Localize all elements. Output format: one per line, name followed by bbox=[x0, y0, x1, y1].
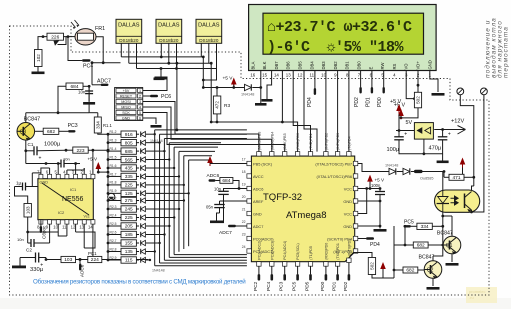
bottom margin strip bbox=[0, 298, 511, 309]
MCU right pin VCC bbox=[353, 211, 358, 215]
svg-text:R2.7: R2.7 bbox=[110, 239, 117, 243]
resistor R2.8 135 bbox=[107, 250, 110, 253]
resistor 334 out bbox=[417, 223, 432, 229]
MCU right pin (INT1)PD3 bbox=[353, 249, 358, 253]
port PC3 stub bbox=[284, 266, 286, 274]
wire LCD pin15 bbox=[267, 71, 272, 100]
svg-text:Q1: Q1 bbox=[446, 243, 453, 249]
wire vcc2 right bbox=[358, 189, 367, 214]
wire q2 collector bbox=[432, 256, 434, 261]
diode D2.3 bbox=[136, 208, 139, 210]
svg-text:R1.1: R1.1 bbox=[103, 123, 113, 128]
resistor R1.4 685 bbox=[107, 150, 110, 153]
wire C2 right bus bbox=[45, 258, 47, 260]
svg-text:685: 685 bbox=[125, 149, 133, 155]
resistor R2.2 275 bbox=[107, 199, 110, 202]
svg-text:1µ: 1µ bbox=[16, 181, 22, 186]
port Сброс bbox=[40, 226, 42, 233]
wire gnd2 right bbox=[358, 225, 380, 227]
port PD2 (lcd) bbox=[360, 71, 362, 88]
port PC5 out bbox=[404, 225, 412, 227]
svg-text:R1.4: R1.4 bbox=[110, 147, 117, 151]
svg-text:+: + bbox=[40, 263, 43, 269]
terminal screw 2 bbox=[481, 88, 488, 95]
port ADC6 bar bbox=[209, 179, 216, 181]
wire VCC pin right bbox=[358, 188, 380, 190]
ground chipleft bbox=[210, 221, 224, 224]
port PD4 (lcd) bbox=[314, 88, 316, 95]
wire opto collector bbox=[473, 177, 475, 186]
svg-text:17: 17 bbox=[242, 158, 246, 162]
svg-text:PC1: PC1 bbox=[88, 251, 97, 256]
wire ISP SCK bbox=[143, 113, 285, 152]
svg-text:+5 V: +5 V bbox=[88, 157, 99, 162]
port PD1 stub bbox=[337, 266, 339, 274]
wire 226 to FR1 bbox=[66, 36, 75, 38]
circled junction bbox=[108, 193, 115, 200]
svg-text:MISO: MISO bbox=[121, 105, 131, 109]
wires below NE556 bbox=[57, 224, 59, 232]
diode D2.5 bbox=[136, 225, 139, 227]
svg-text:PC3: PC3 bbox=[68, 123, 78, 129]
MCU bottom pin (T1)PD5 bbox=[308, 262, 312, 267]
svg-text:FR1: FR1 bbox=[95, 26, 105, 32]
svg-text:R2.6: R2.6 bbox=[110, 230, 117, 234]
svg-text:GND: GND bbox=[122, 116, 131, 120]
MCU left pin AVCC bbox=[247, 174, 252, 178]
FR1 light arrows bbox=[71, 20, 79, 28]
svg-text:PC3: PC3 bbox=[279, 281, 285, 291]
svg-text:DB3: DB3 bbox=[321, 61, 326, 70]
resistor 102 vertical bbox=[35, 50, 43, 67]
MCU bottom pin (TXD)PD1 bbox=[335, 262, 339, 267]
svg-text:115: 115 bbox=[125, 258, 133, 264]
MCU top pin 8 bbox=[347, 152, 351, 157]
svg-text:805: 805 bbox=[125, 140, 133, 146]
svg-text:565: 565 bbox=[125, 157, 133, 163]
svg-text:PD1: PD1 bbox=[365, 97, 371, 107]
wire GND drop bbox=[202, 57, 204, 80]
NE556 top pin 4 bbox=[65, 174, 69, 178]
resistor 684 left(2) bbox=[220, 178, 233, 184]
wire +5V row bbox=[203, 87, 244, 89]
ISP row MOSI bbox=[116, 99, 136, 103]
wire gnd lcd pin1 bbox=[430, 71, 438, 93]
resistor 103 vertical bbox=[24, 204, 31, 218]
wire LCD pin3 VO bbox=[406, 71, 414, 99]
MCU bottom pin PC2(ADC2) bbox=[257, 262, 261, 267]
sensor 2 pins bbox=[160, 43, 162, 57]
red arrow opto bbox=[460, 158, 466, 165]
svg-text:14: 14 bbox=[274, 73, 279, 78]
transistor Q2 bbox=[424, 261, 442, 279]
svg-text:470µ: 470µ bbox=[429, 146, 442, 152]
wire gnd stem psu bbox=[442, 154, 444, 161]
MCU left pin ADC6 bbox=[247, 186, 252, 190]
svg-text:AREF: AREF bbox=[253, 199, 264, 204]
wire LCD DB4 bbox=[325, 71, 327, 152]
svg-text:VCC: VCC bbox=[344, 186, 352, 191]
MCU left pin GND bbox=[247, 211, 252, 215]
svg-text:103: 103 bbox=[25, 206, 30, 214]
wire gnd pin right bbox=[358, 200, 380, 202]
svg-text:5V: 5V bbox=[406, 120, 413, 126]
svg-text:DALLAS: DALLAS bbox=[118, 23, 140, 29]
svg-text:RS: RS bbox=[392, 63, 397, 69]
MCU left pin PC1(ADC1) bbox=[247, 249, 252, 253]
svg-text:GND: GND bbox=[40, 181, 49, 185]
diode D1.2 bbox=[136, 133, 139, 135]
capacitor C2 bbox=[35, 253, 37, 263]
wire ISP MISO bbox=[143, 107, 272, 152]
resistor 502 pd3 bbox=[368, 258, 375, 275]
wire LCD pin11 PD4stub bbox=[314, 71, 316, 89]
svg-text:R1.5: R1.5 bbox=[110, 155, 117, 159]
wire FR1 right bbox=[96, 37, 103, 63]
diode D2.9 bbox=[136, 259, 139, 261]
port PD5 stub bbox=[310, 266, 312, 274]
optocoupler U2 bbox=[435, 190, 480, 212]
svg-text:(XTAL1/TOSC1)PB6: (XTAL1/TOSC1)PB6 bbox=[316, 174, 352, 179]
svg-text:⌂+23.7ʹC ω+32.6ʹC: ⌂+23.7ʹC ω+32.6ʹC bbox=[267, 19, 412, 36]
resistor R1.9 125 bbox=[107, 192, 110, 195]
wire opto emitter bbox=[471, 210, 473, 212]
svg-text:promelec: promelec bbox=[469, 289, 485, 294]
wire node B down to PC4 bbox=[68, 37, 82, 61]
NE556 bottom pin 9 bbox=[48, 220, 52, 224]
svg-text:R2.2: R2.2 bbox=[110, 196, 117, 200]
svg-text:+12V: +12V bbox=[451, 119, 464, 125]
wire 224 right bbox=[102, 259, 149, 261]
NE556 top pin 2 bbox=[82, 174, 86, 178]
wire LCD DB7 bbox=[282, 71, 297, 152]
resistor 223 bbox=[73, 147, 88, 153]
svg-text:Q2: Q2 bbox=[427, 268, 434, 274]
wire terminal1 down bbox=[460, 95, 474, 178]
svg-text:10n: 10n bbox=[63, 157, 70, 162]
resistor 682 q1 bbox=[413, 242, 428, 248]
svg-text:10n: 10n bbox=[78, 90, 86, 95]
diode D2.7 bbox=[136, 242, 139, 244]
wire R1.1 down bbox=[98, 133, 108, 134]
svg-text:22: 22 bbox=[242, 220, 246, 224]
svg-text:GND: GND bbox=[427, 60, 432, 69]
MCU top pin 5 bbox=[308, 152, 312, 157]
svg-text:SCK: SCK bbox=[122, 111, 130, 115]
ISP row +5V bbox=[116, 88, 136, 92]
NE556 bottom pin 8 bbox=[39, 220, 43, 224]
+5V arrow VCC bbox=[367, 175, 373, 182]
svg-text:224: 224 bbox=[91, 257, 99, 263]
svg-text:15: 15 bbox=[262, 73, 267, 78]
svg-text:435: 435 bbox=[125, 166, 133, 172]
cap 10n bottom bbox=[30, 239, 32, 247]
wire bus to R1.1 bbox=[89, 112, 98, 114]
wire diodes to opto bbox=[411, 171, 414, 173]
ISP row GND bbox=[116, 116, 136, 120]
port PC3 bbox=[59, 130, 68, 132]
MCU top pin 3 bbox=[283, 152, 287, 157]
svg-text:PD5: PD5 bbox=[305, 281, 311, 291]
svg-text:PD0: PD0 bbox=[320, 281, 326, 291]
svg-text:DS18b20: DS18b20 bbox=[199, 38, 219, 43]
MCU left pin PB5 (SCK) bbox=[247, 161, 252, 165]
psu gnd bus bbox=[399, 140, 443, 154]
diode D2.4 bbox=[136, 217, 139, 219]
wire caps to gnd bbox=[223, 194, 225, 220]
svg-text:BLK: BLK bbox=[262, 61, 267, 69]
svg-text:100µ: 100µ bbox=[387, 147, 400, 153]
wire 684 to ADC6 pin bbox=[233, 181, 247, 189]
wire ISP GND bbox=[143, 118, 156, 124]
wire 682 q2 left bbox=[394, 269, 403, 271]
svg-text:R2.5: R2.5 bbox=[110, 222, 117, 226]
svg-text:E: E bbox=[368, 67, 373, 70]
port PD2 stub bbox=[348, 263, 350, 275]
wire PB7 diodes bbox=[358, 164, 389, 172]
svg-text:20: 20 bbox=[242, 195, 246, 199]
wire 471 left bbox=[444, 176, 449, 178]
svg-text:(T0)PD4: (T0)PD4 bbox=[347, 136, 351, 150]
svg-text:AVCC: AVCC bbox=[253, 174, 264, 179]
trimmer 226 bbox=[47, 33, 64, 40]
svg-text:(XTAL2/TOSC2) PB7: (XTAL2/TOSC2) PB7 bbox=[315, 161, 352, 166]
resistor R1.3 805 bbox=[107, 141, 110, 144]
+5V arrow ladder bbox=[96, 162, 102, 169]
resistor 103 bottom bbox=[61, 256, 76, 262]
svg-text:225: 225 bbox=[125, 183, 133, 189]
diode D2.8 bbox=[136, 251, 139, 253]
svg-text:DB2: DB2 bbox=[333, 61, 338, 70]
svg-text:334: 334 bbox=[421, 224, 429, 230]
svg-text:Ou8585: Ou8585 bbox=[420, 177, 434, 181]
svg-text:ADC6: ADC6 bbox=[80, 264, 85, 277]
port ADC7 bar2 bbox=[228, 225, 236, 227]
svg-text:05n: 05n bbox=[206, 205, 214, 210]
svg-text:135: 135 bbox=[125, 249, 133, 255]
svg-text:+5 V: +5 V bbox=[390, 99, 402, 105]
ground C2 left bbox=[20, 257, 27, 259]
wire 102 to 226 bbox=[38, 37, 47, 50]
ground ISP top bbox=[154, 78, 165, 81]
svg-text:226: 226 bbox=[51, 34, 59, 40]
capacitor/gnd backlight bbox=[260, 88, 262, 104]
svg-text:R1.9: R1.9 bbox=[110, 189, 117, 193]
svg-text:RW: RW bbox=[380, 63, 385, 70]
svg-text:223: 223 bbox=[76, 148, 84, 154]
svg-text:+5 V: +5 V bbox=[223, 76, 234, 82]
svg-text:GND: GND bbox=[253, 211, 262, 216]
svg-text:(T1)PD5: (T1)PD5 bbox=[309, 246, 313, 260]
wire VDD drop to +5V row bbox=[203, 69, 216, 88]
svg-text:PC3(ADC3): PC3(ADC3) bbox=[270, 241, 274, 260]
MCU top pin 1 bbox=[257, 152, 261, 157]
diode D1.6 bbox=[136, 167, 139, 169]
watermark bbox=[466, 287, 497, 303]
diode D1.5 bbox=[136, 159, 139, 161]
sensor DALLAS DS18b20 #2 bbox=[156, 19, 182, 43]
svg-text:10n: 10n bbox=[17, 237, 24, 242]
MCU bottom pin PC3(ADC3) bbox=[270, 262, 274, 267]
diode D1.3 bbox=[136, 142, 139, 144]
wire to ADC7 bbox=[91, 63, 93, 85]
MCU right pin (SCK/T0) PD4 bbox=[353, 236, 358, 240]
svg-text:+5 V: +5 V bbox=[375, 178, 386, 183]
ground below 102 bbox=[37, 67, 39, 72]
svg-text:PD1: PD1 bbox=[332, 281, 338, 291]
svg-text:24: 24 bbox=[242, 245, 246, 249]
resistor R2.3 245 bbox=[107, 208, 110, 211]
port PD0 (lcd) bbox=[383, 71, 385, 88]
resistor R2.5 205 bbox=[107, 225, 110, 228]
transistor Q3 bbox=[17, 123, 35, 141]
svg-text:472: 472 bbox=[215, 101, 220, 109]
ground psu bbox=[437, 161, 449, 164]
svg-text:PD4: PD4 bbox=[307, 97, 313, 107]
NE556 bottom pin 10 bbox=[56, 220, 60, 224]
resistor 682 q2 bbox=[403, 267, 418, 273]
svg-text:+: + bbox=[404, 131, 407, 137]
svg-text:23: 23 bbox=[242, 233, 246, 237]
svg-text:4: 4 bbox=[139, 105, 141, 109]
svg-text:)-6ʹC ☼ʹ5% ʺ18%: )-6ʹC ☼ʹ5% ʺ18% bbox=[267, 39, 405, 56]
red arrow pd3 bbox=[380, 262, 386, 269]
ISP row MISO bbox=[116, 105, 136, 109]
svg-text:(INT1)PD3: (INT1)PD3 bbox=[336, 133, 340, 150]
resistor 684 bbox=[66, 83, 83, 90]
MCU top pin 7 bbox=[335, 152, 339, 157]
NE556 bottom pin 13 bbox=[82, 220, 86, 224]
svg-text:11: 11 bbox=[310, 73, 315, 78]
resistor R2.7 155 bbox=[107, 242, 110, 245]
resistor R2.4 225 bbox=[107, 216, 110, 219]
wire 1u left down bbox=[15, 187, 28, 204]
+5V arrow psu bbox=[396, 104, 402, 111]
svg-text:916: 916 bbox=[125, 132, 133, 138]
svg-text:GND: GND bbox=[343, 199, 352, 204]
wire 682 q1 left bbox=[405, 226, 413, 245]
resistor R2.6 185 bbox=[107, 233, 110, 236]
diode D2.2 bbox=[136, 200, 139, 202]
wire 684 right bbox=[83, 85, 89, 87]
svg-text:BC847: BC847 bbox=[419, 255, 435, 261]
wire +12V rail bbox=[434, 129, 465, 131]
MCU top pin 4 bbox=[295, 152, 299, 157]
wire sensor GND bus bbox=[121, 56, 203, 58]
resistor 224 bottom bbox=[88, 256, 102, 262]
wire sensor DQ bus bbox=[129, 62, 211, 64]
NE556 bottom pin 12 bbox=[74, 220, 78, 224]
wire terminal2 down bbox=[472, 95, 484, 212]
svg-text:502: 502 bbox=[370, 262, 375, 270]
svg-text:21: 21 bbox=[242, 208, 246, 212]
svg-text:3: 3 bbox=[139, 100, 141, 104]
svg-text:125: 125 bbox=[125, 191, 133, 197]
ground sensors bbox=[160, 69, 162, 77]
svg-text:PC0(ADC0): PC0(ADC0) bbox=[253, 236, 274, 241]
wire LCD DB6 bbox=[293, 71, 310, 152]
wire R3 bottom bbox=[216, 114, 218, 122]
wire q1 collector up bbox=[451, 216, 453, 236]
diode D5 bbox=[403, 168, 410, 174]
wires above NE556 bbox=[49, 168, 51, 174]
resistor R1.8 225 bbox=[107, 184, 110, 187]
MCU left pin AREF bbox=[247, 199, 252, 203]
wire regulator left bbox=[396, 130, 414, 132]
svg-text:BC847: BC847 bbox=[437, 231, 453, 237]
svg-text:NE556: NE556 bbox=[62, 196, 84, 203]
wire 502 bottom bbox=[372, 275, 383, 279]
wire 684-10n down bbox=[88, 86, 90, 112]
svg-text:Vcc: Vcc bbox=[84, 215, 90, 219]
svg-text:1N4148: 1N4148 bbox=[241, 93, 254, 97]
svg-text:16: 16 bbox=[250, 73, 255, 78]
svg-text:PC2(ADC2): PC2(ADC2) bbox=[257, 241, 261, 260]
LCD screen bbox=[263, 13, 424, 54]
svg-text:DALLAS: DALLAS bbox=[158, 23, 180, 29]
LCD module body bbox=[249, 5, 437, 71]
sensor DALLAS DS18b20 #3 bbox=[196, 19, 222, 43]
svg-text:R2.9: R2.9 bbox=[110, 256, 117, 260]
MCU top pin 6 bbox=[324, 152, 328, 157]
port PC4 bbox=[82, 59, 91, 61]
svg-text:+: + bbox=[448, 131, 451, 137]
svg-text:245: 245 bbox=[125, 207, 133, 213]
svg-text:DS18b20: DS18b20 bbox=[159, 38, 179, 43]
resistor 682 q3 bbox=[43, 128, 59, 134]
svg-text:R1.8: R1.8 bbox=[110, 181, 117, 185]
wire c1/cap bus bbox=[26, 163, 46, 165]
svg-text:BLA: BLA bbox=[250, 61, 255, 69]
node A (226 left) bbox=[42, 35, 45, 38]
svg-text:ATmega8: ATmega8 bbox=[286, 210, 326, 221]
svg-text:C2: C2 bbox=[26, 248, 32, 253]
wire between diodes bbox=[397, 171, 403, 173]
diode D1.9 bbox=[136, 192, 139, 194]
MCU right pin (XTAL2/TOSC2) PB7 bbox=[353, 161, 358, 165]
svg-text:ADC6: ADC6 bbox=[253, 186, 263, 191]
wire bottom bus1 bbox=[28, 231, 59, 233]
svg-text:275: 275 bbox=[125, 198, 133, 204]
svg-text:682: 682 bbox=[417, 243, 425, 249]
svg-text:471: 471 bbox=[452, 175, 460, 181]
NE556 top pin 1 bbox=[91, 174, 95, 178]
capacitor C1 bbox=[33, 146, 35, 155]
diode D4 bbox=[389, 168, 396, 174]
svg-text:ADC7: ADC7 bbox=[97, 79, 111, 85]
red arrow chip topleft bbox=[207, 156, 213, 163]
svg-text:DS18b20: DS18b20 bbox=[119, 38, 139, 43]
port PC6 bbox=[143, 95, 150, 97]
wire Q3 emitter down bbox=[25, 140, 27, 163]
port PC2 stub bbox=[258, 266, 260, 274]
regulator 5V box bbox=[414, 123, 433, 140]
resistor 502 (contrast) bbox=[414, 92, 421, 108]
svg-text:102: 102 bbox=[36, 54, 41, 62]
NE556 top pin 6 bbox=[48, 174, 52, 178]
wire diode to pin16 bbox=[252, 87, 260, 89]
sensor 3 pins bbox=[200, 43, 202, 57]
port PD4 stub right bbox=[358, 238, 366, 240]
svg-text:PC4(ADC4): PC4(ADC4) bbox=[283, 241, 287, 260]
wire 103-224 bbox=[76, 259, 88, 261]
wire LCD RS bbox=[348, 71, 350, 152]
svg-text:PD2: PD2 bbox=[354, 97, 360, 107]
ground q2 bbox=[432, 278, 434, 286]
svg-text:100n: 100n bbox=[371, 183, 381, 188]
svg-text:ADC7: ADC7 bbox=[219, 230, 232, 236]
ground mcu right bbox=[379, 195, 381, 229]
